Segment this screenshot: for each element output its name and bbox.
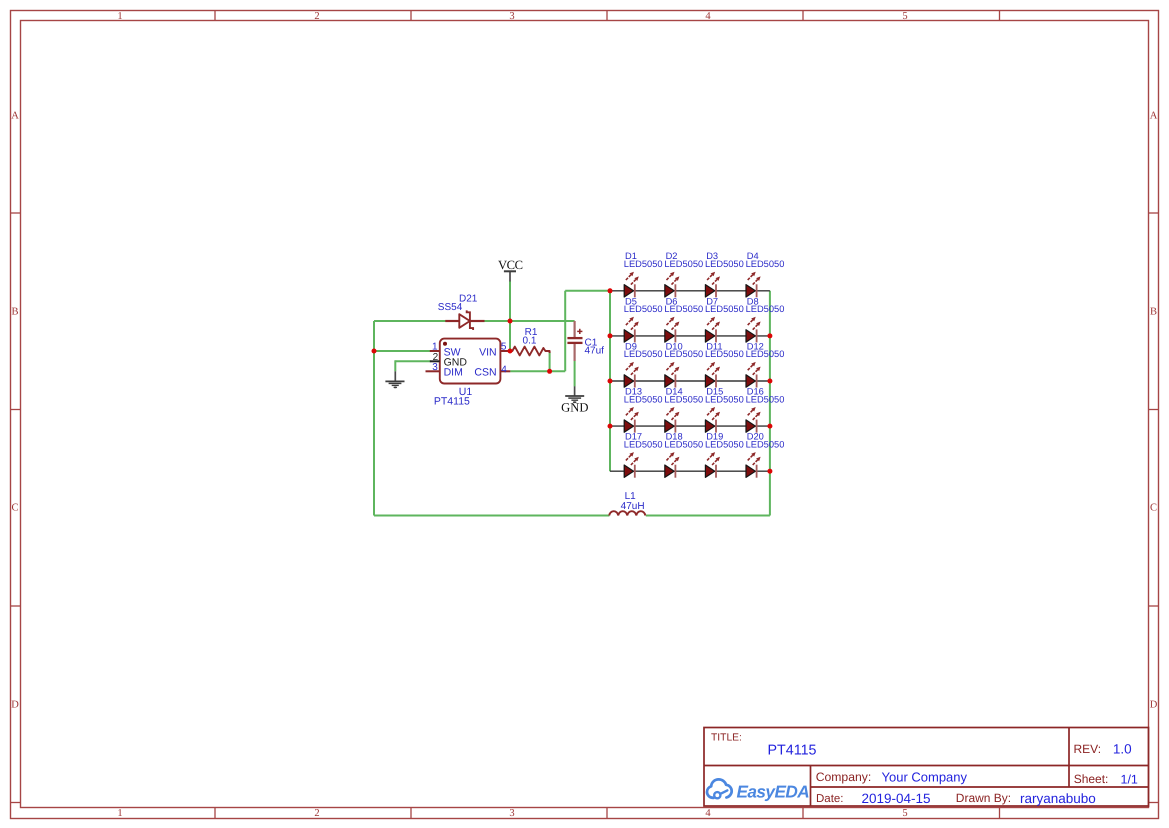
wire LED row 2 [610,335,770,337]
junction CSN/R1 node [547,369,552,374]
svg-text:3: 3 [432,362,438,373]
svg-text:LED5050: LED5050 [624,304,663,314]
LED D20 [746,452,761,478]
wire R1 right lead down to CSN net [549,352,551,371]
svg-text:LED5050: LED5050 [624,394,663,404]
junction left rail y=426.1 [608,424,613,429]
LED D8 [746,317,761,343]
U1 pin 2 GND stub [430,360,440,362]
svg-text:2: 2 [314,808,319,819]
svg-text:TITLE:: TITLE: [711,732,742,743]
svg-text:SS54: SS54 [438,302,463,313]
border row tick left y=802.5 [11,802,21,804]
wire bottom L1 net left [374,515,609,517]
wire GND pin to ground [395,360,430,362]
svg-text:A: A [11,111,19,122]
border column tick top x=607 [606,11,608,21]
svg-text:1/1: 1/1 [1121,773,1138,787]
svg-text:LED5050: LED5050 [746,304,785,314]
svg-text:D: D [1150,700,1158,711]
svg-text:4: 4 [501,364,507,375]
svg-text:Drawn By:: Drawn By: [956,791,1011,805]
LED D19 [705,452,720,478]
svg-text:5: 5 [902,11,907,22]
svg-text:1: 1 [432,342,438,353]
U1 pin 5 VIN stub [500,350,510,352]
svg-text:EasyEDA: EasyEDA [737,782,810,802]
svg-text:Your Company: Your Company [882,770,968,785]
wire bottom L1 net right [646,515,770,517]
svg-text:LED5050: LED5050 [746,349,785,359]
resistor R1 0.1 [510,347,550,356]
wire C1 bottom to ground [574,361,576,386]
wire LED row 1 [610,290,770,292]
junction left rail y=290.8 [608,288,613,293]
inductor L1 47uH [609,511,645,515]
svg-text:REV:: REV: [1074,742,1102,756]
svg-text:GND: GND [561,400,588,414]
border row tick left y=606 [11,605,21,607]
svg-text:1.0: 1.0 [1113,741,1132,756]
svg-text:LED5050: LED5050 [664,394,703,404]
wire LED row 5 [610,470,770,472]
svg-text:CSN: CSN [474,367,496,379]
U1 pin 4 CSN stub [500,370,510,372]
junction right rail y=381.0 [767,379,772,384]
svg-text:1: 1 [117,808,122,819]
svg-text:LED5050: LED5050 [746,394,785,404]
svg-text:2019-04-15: 2019-04-15 [862,791,931,806]
junction VIN node [508,349,513,354]
svg-text:LED5050: LED5050 [746,439,785,449]
junction right rail y=335.9 [767,333,772,338]
svg-text:B: B [1150,307,1157,318]
capacitor C1 47uf [567,321,582,361]
LED D17 [624,452,639,478]
wire LED row 4 [610,425,770,427]
wire LED array right rail [769,291,771,516]
border column tick bottom x=999.5 [999,808,1001,819]
wire LED row 3 [610,380,770,382]
U1 pin 1 SW stub [430,350,440,352]
wire VCC vertical to VIN [509,281,511,352]
junction right rail y=426.1 [767,424,772,429]
svg-text:47uH: 47uH [621,501,645,512]
svg-text:LED5050: LED5050 [624,439,663,449]
wire SW pin to left rail [374,350,431,352]
border column tick bottom x=215 [214,808,216,819]
LED D16 [746,407,761,433]
border row tick left y=409.5 [11,409,21,411]
svg-text:5: 5 [501,342,507,353]
border column tick bottom x=607 [606,808,608,819]
LED D3 [705,272,720,298]
LED D7 [705,317,720,343]
svg-text:3: 3 [509,11,514,22]
svg-text:LED5050: LED5050 [705,349,744,359]
svg-text:LED5050: LED5050 [664,439,703,449]
wire LED feed horizontal [565,290,610,292]
border row tick right y=213 [1149,212,1159,214]
EasyEDA logo cloud icon [707,779,732,798]
border column tick bottom x=803 [802,808,804,819]
svg-text:Sheet:: Sheet: [1074,772,1109,786]
border row tick right y=606 [1149,605,1159,607]
wire ground drop [394,360,396,371]
svg-text:4: 4 [705,808,711,819]
svg-text:DIM: DIM [444,367,463,379]
wire CSN horizontal [510,370,565,372]
svg-text:LED5050: LED5050 [664,259,703,269]
LED D10 [665,362,680,388]
svg-text:LED5050: LED5050 [664,349,703,359]
LED D14 [665,407,680,433]
border column tick bottom x=411 [410,808,412,819]
svg-text:D: D [11,700,19,711]
ground symbol at U1 GND pin [385,371,404,388]
LED D12 [746,362,761,388]
wire CSN riser to LED feed [564,291,566,372]
wire LED array left rail [609,291,611,471]
border column tick top x=215 [214,11,216,21]
svg-text:PT4115: PT4115 [768,743,817,759]
wire D21 anode from left rail [374,320,446,322]
border row tick right y=409.5 [1149,409,1159,411]
svg-text:LED5050: LED5050 [624,259,663,269]
U1 pin1 marker dot [443,342,447,346]
LED D4 [746,272,761,298]
LED D2 [665,272,680,298]
svg-text:raryanabubo: raryanabubo [1020,791,1096,806]
LED D11 [705,362,720,388]
svg-text:1: 1 [117,11,122,22]
svg-text:LED5050: LED5050 [705,304,744,314]
svg-text:C: C [1150,503,1157,514]
border column tick top x=999.5 [999,11,1001,21]
svg-text:Company:: Company: [816,770,872,784]
svg-text:5: 5 [902,808,907,819]
svg-text:LED5050: LED5050 [664,304,703,314]
U1 pin 3 DIM stub [426,370,440,372]
svg-text:VCC: VCC [498,258,523,272]
LED D15 [705,407,720,433]
border row tick right y=802.5 [1149,802,1159,804]
junction right rail y=471.2 [767,469,772,474]
power flag VCC [504,271,516,281]
title block frame [704,728,1149,807]
LED D1 [624,272,639,298]
svg-text:A: A [1150,111,1158,122]
svg-text:VIN: VIN [479,347,497,359]
LED D6 [665,317,680,343]
svg-text:47uf: 47uf [585,346,605,357]
border column tick top x=411 [410,11,412,21]
junction left rail y=335.9 [608,333,613,338]
junction left rail y=381.0 [608,379,613,384]
svg-text:4: 4 [705,11,711,22]
svg-text:2: 2 [314,11,319,22]
LED D9 [624,362,639,388]
LED D5 [624,317,639,343]
border row tick left y=213 [11,212,21,214]
wire D21 cathode to VCC node and C1 top [484,320,575,322]
wire left vertical net SW/L1 [373,321,375,516]
svg-text:PT4115: PT4115 [434,395,470,407]
svg-text:LED5050: LED5050 [624,349,663,359]
svg-text:Date:: Date: [816,793,844,805]
svg-text:LED5050: LED5050 [746,259,785,269]
svg-text:LED5050: LED5050 [705,439,744,449]
svg-text:C: C [11,503,18,514]
junction VCC/diode node [508,319,513,324]
svg-text:B: B [11,307,18,318]
svg-text:LED5050: LED5050 [705,394,744,404]
LED D18 [665,452,680,478]
svg-text:0.1: 0.1 [523,336,537,347]
LED D13 [624,407,639,433]
border column tick top x=803 [802,11,804,21]
junction SW tap [372,349,377,354]
svg-text:3: 3 [509,808,514,819]
op-amp U1 PT4115 body [440,339,501,384]
svg-text:LED5050: LED5050 [705,259,744,269]
diode D21 SS54 [445,310,484,330]
ground symbol GND under C1 [565,386,584,403]
